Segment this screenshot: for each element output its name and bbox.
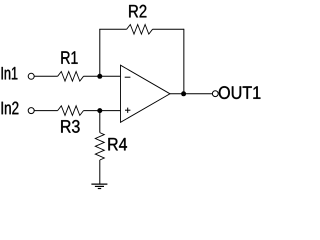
- resistor R1: [58, 51, 84, 81]
- resistor R3: [58, 106, 84, 133]
- resistor R2: [127, 5, 153, 34]
- wire to R2: [99, 28, 126, 30]
- wire R1 to op-amp: [84, 75, 121, 77]
- junction node at non-inverting input: [97, 108, 102, 113]
- wire R3 to op-amp: [84, 110, 121, 112]
- junction node at output: [181, 91, 186, 96]
- wire In2 to R3: [34, 110, 57, 112]
- op-amp U1: [121, 65, 171, 122]
- wire In1 to R1: [34, 75, 57, 77]
- wire feedback left leg: [99, 29, 101, 76]
- ground: [91, 184, 107, 188]
- wire R4 to ground: [99, 160, 101, 184]
- wire feedback right leg: [183, 29, 185, 94]
- node In1: [2, 67, 35, 79]
- wire junction to R4: [99, 111, 101, 133]
- node OUT1: [212, 86, 260, 99]
- wire op-amp output: [170, 93, 212, 95]
- wire R2 to right leg: [153, 28, 184, 30]
- junction node at inverting input: [97, 74, 102, 79]
- resistor R4: [95, 133, 127, 160]
- node In2: [2, 102, 35, 115]
